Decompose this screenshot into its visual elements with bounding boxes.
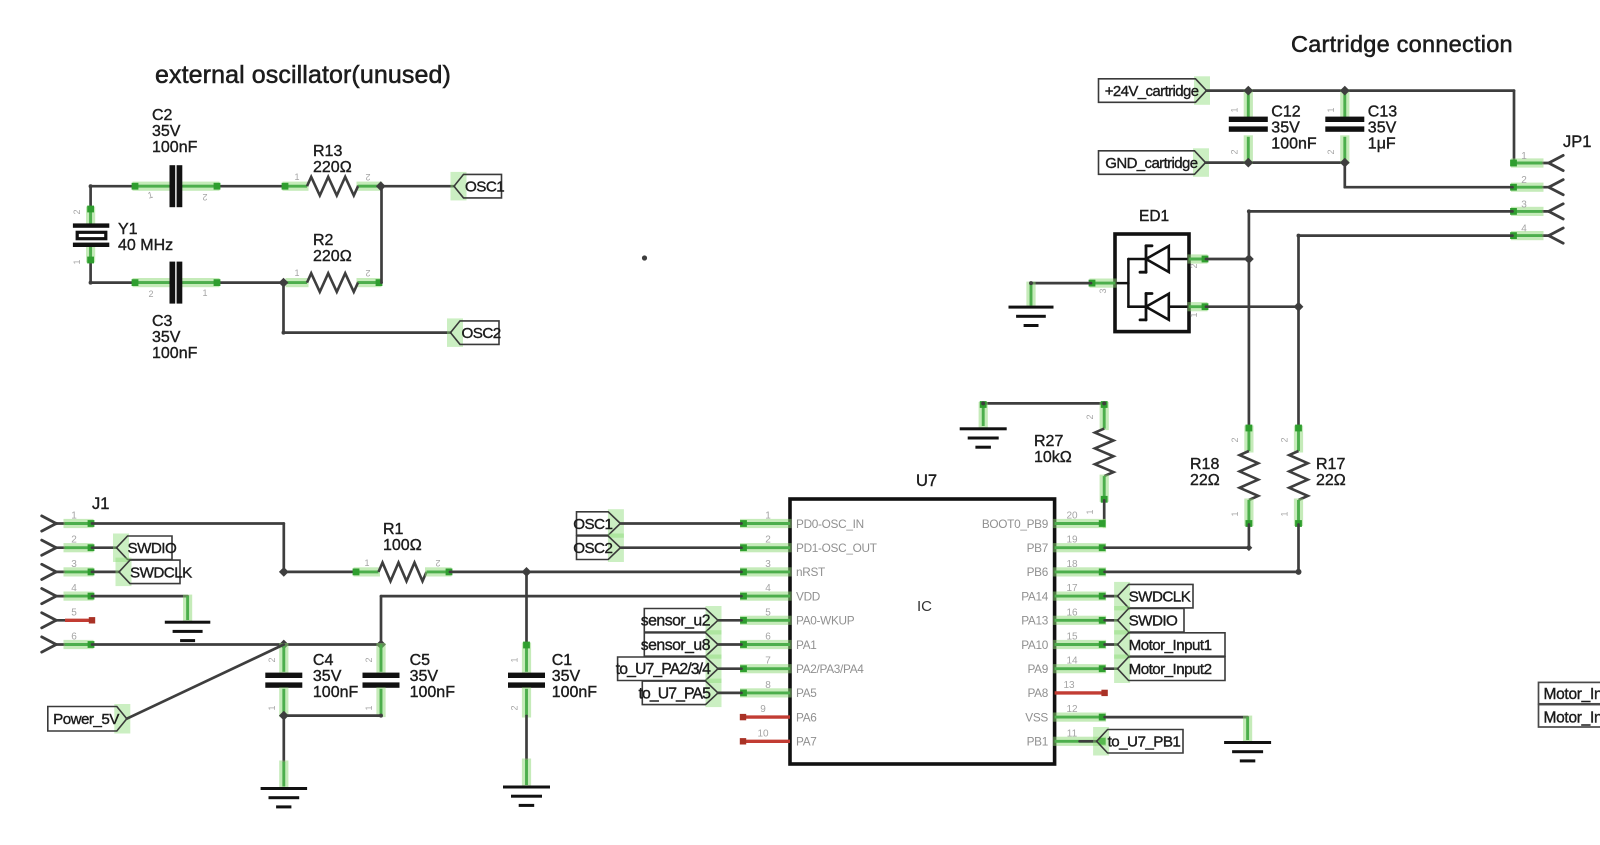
svg-text:sensor_u8: sensor_u8: [641, 637, 711, 654]
svg-text:100nF: 100nF: [552, 684, 598, 701]
svg-text:20: 20: [1066, 511, 1078, 522]
svg-text:to_U7_PB1: to_U7_PB1: [1108, 734, 1181, 751]
svg-text:2: 2: [71, 535, 77, 546]
svg-text:100Ω: 100Ω: [383, 537, 422, 554]
svg-text:C13: C13: [1368, 104, 1397, 121]
svg-text:1: 1: [1230, 511, 1240, 516]
svg-text:2: 2: [72, 209, 82, 214]
svg-text:SWDCLK: SWDCLK: [1129, 589, 1191, 606]
svg-text:IC: IC: [917, 598, 932, 615]
svg-text:PA13: PA13: [1021, 614, 1049, 628]
svg-text:sensor_u2: sensor_u2: [641, 613, 710, 630]
svg-text:PA14: PA14: [1021, 589, 1049, 603]
svg-text:6: 6: [71, 632, 77, 643]
svg-text:Motor_Input2: Motor_Input2: [1129, 661, 1212, 678]
svg-text:17: 17: [1066, 583, 1078, 594]
svg-text:1μF: 1μF: [1368, 136, 1396, 153]
svg-text:35V: 35V: [410, 668, 439, 685]
svg-text:35V: 35V: [313, 668, 342, 685]
svg-text:2: 2: [1280, 437, 1290, 442]
svg-text:2: 2: [365, 268, 370, 278]
svg-text:1: 1: [267, 705, 277, 710]
svg-text:2: 2: [1230, 437, 1240, 442]
svg-text:220Ω: 220Ω: [313, 159, 352, 176]
svg-text:Motor_Input1: Motor_Input1: [1129, 637, 1212, 654]
svg-text:1: 1: [71, 511, 77, 522]
svg-text:R13: R13: [313, 143, 342, 160]
svg-text:R17: R17: [1316, 456, 1345, 473]
svg-text:15: 15: [1066, 632, 1078, 643]
svg-text:PB6: PB6: [1027, 565, 1049, 579]
svg-text:R18: R18: [1190, 456, 1219, 473]
svg-text:220Ω: 220Ω: [313, 248, 352, 265]
svg-text:2: 2: [765, 535, 771, 546]
svg-text:8: 8: [765, 680, 771, 691]
svg-text:100nF: 100nF: [1271, 136, 1317, 153]
svg-text:3: 3: [765, 559, 771, 570]
svg-text:1: 1: [1085, 509, 1095, 514]
svg-text:2: 2: [1085, 414, 1095, 419]
svg-text:7: 7: [765, 656, 771, 667]
svg-text:Power_5V: Power_5V: [53, 711, 120, 728]
svg-text:C4: C4: [313, 652, 334, 669]
svg-text:C3: C3: [152, 313, 173, 330]
svg-text:1: 1: [1280, 511, 1290, 516]
svg-text:VSS: VSS: [1025, 710, 1048, 724]
svg-text:22Ω: 22Ω: [1190, 472, 1220, 489]
svg-text:J1: J1: [92, 495, 109, 513]
svg-text:U7: U7: [916, 472, 937, 490]
svg-text:3: 3: [1098, 288, 1108, 293]
svg-text:5: 5: [765, 607, 771, 618]
svg-text:2: 2: [148, 289, 153, 299]
svg-text:100nF: 100nF: [410, 684, 456, 701]
svg-text:4: 4: [765, 583, 771, 594]
svg-text:OSC1: OSC1: [465, 179, 504, 196]
svg-text:35V: 35V: [152, 123, 181, 140]
svg-text:PD0-OSC_IN: PD0-OSC_IN: [796, 517, 864, 531]
svg-text:C5: C5: [410, 652, 431, 669]
svg-text:+24V_cartridge: +24V_cartridge: [1105, 83, 1199, 100]
svg-text:VDD: VDD: [796, 589, 820, 603]
svg-text:1: 1: [1521, 151, 1527, 162]
svg-text:13: 13: [1063, 680, 1075, 691]
svg-text:PA1: PA1: [796, 638, 817, 652]
svg-text:18: 18: [1066, 559, 1078, 570]
svg-text:35V: 35V: [152, 329, 181, 346]
svg-text:100nF: 100nF: [313, 684, 359, 701]
svg-text:4: 4: [71, 583, 77, 594]
svg-text:22Ω: 22Ω: [1316, 472, 1346, 489]
svg-text:3: 3: [1521, 199, 1527, 210]
svg-text:to_U7_PA5: to_U7_PA5: [638, 685, 711, 702]
svg-text:1: 1: [364, 705, 374, 710]
svg-text:1: 1: [765, 511, 771, 522]
svg-text:PD1-OSC_OUT: PD1-OSC_OUT: [796, 541, 877, 555]
svg-text:SWDIO: SWDIO: [128, 540, 177, 557]
svg-text:5: 5: [71, 607, 77, 618]
svg-text:6: 6: [765, 632, 771, 643]
svg-text:JP1: JP1: [1563, 133, 1591, 151]
svg-text:2: 2: [267, 657, 277, 662]
svg-text:ED1: ED1: [1139, 208, 1169, 225]
svg-text:1: 1: [1326, 107, 1336, 112]
svg-text:12: 12: [1066, 704, 1078, 715]
svg-text:PA7: PA7: [796, 735, 817, 749]
svg-text:2: 2: [1326, 149, 1336, 154]
svg-text:2: 2: [1229, 149, 1239, 154]
svg-text:1: 1: [72, 259, 82, 264]
svg-text:3: 3: [71, 559, 77, 570]
svg-text:PB1: PB1: [1027, 735, 1048, 749]
svg-text:1: 1: [510, 657, 520, 662]
svg-text:2: 2: [364, 657, 374, 662]
svg-text:14: 14: [1066, 656, 1078, 667]
svg-text:OSC1: OSC1: [573, 516, 612, 533]
svg-text:11: 11: [1067, 728, 1078, 739]
svg-text:PB7: PB7: [1027, 541, 1048, 555]
svg-text:2: 2: [510, 705, 520, 710]
svg-text:nRST: nRST: [796, 565, 825, 579]
svg-text:2: 2: [202, 192, 207, 202]
svg-text:19: 19: [1066, 535, 1078, 546]
svg-text:PA8: PA8: [1027, 686, 1048, 700]
svg-text:35V: 35V: [1271, 120, 1300, 137]
svg-text:1: 1: [1189, 312, 1199, 317]
svg-text:SWDIO: SWDIO: [1129, 613, 1178, 630]
svg-text:1: 1: [294, 268, 299, 278]
svg-text:OSC2: OSC2: [462, 325, 501, 342]
svg-text:Cartridge connection: Cartridge connection: [1291, 31, 1513, 57]
svg-text:4: 4: [1521, 224, 1527, 235]
svg-text:R27: R27: [1034, 433, 1063, 450]
svg-text:BOOT0_PB9: BOOT0_PB9: [982, 517, 1048, 531]
svg-text:Y1: Y1: [118, 221, 138, 238]
svg-text:to_U7_PA2/3/4: to_U7_PA2/3/4: [616, 661, 711, 678]
svg-text:PA9: PA9: [1027, 662, 1048, 676]
svg-text:1: 1: [1229, 107, 1239, 112]
svg-text:PA5: PA5: [796, 686, 817, 700]
svg-text:external oscillator(unused): external oscillator(unused): [155, 61, 451, 89]
svg-text:Motor_Input2: Motor_Input2: [1544, 710, 1600, 727]
svg-text:R1: R1: [383, 521, 404, 538]
svg-text:10: 10: [757, 728, 769, 739]
svg-text:R2: R2: [313, 232, 334, 249]
svg-text:PA0-WKUP: PA0-WKUP: [796, 614, 855, 628]
svg-text:PA6: PA6: [796, 710, 817, 724]
svg-text:OSC2: OSC2: [573, 540, 612, 557]
svg-text:GND_cartridge: GND_cartridge: [1105, 155, 1197, 172]
svg-text:Motor_Input1: Motor_Input1: [1544, 686, 1600, 703]
svg-text:C12: C12: [1271, 104, 1300, 121]
svg-text:1: 1: [364, 558, 369, 568]
svg-text:PA10: PA10: [1021, 638, 1049, 652]
svg-text:35V: 35V: [552, 668, 581, 685]
svg-text:100nF: 100nF: [152, 139, 198, 156]
svg-text:16: 16: [1066, 607, 1078, 618]
svg-text:10kΩ: 10kΩ: [1034, 449, 1072, 466]
svg-text:C1: C1: [552, 652, 573, 669]
svg-text:1: 1: [202, 288, 207, 298]
svg-text:SWDCLK: SWDCLK: [130, 564, 192, 581]
svg-text:C2: C2: [152, 107, 173, 124]
svg-text:2: 2: [435, 558, 440, 568]
svg-text:2: 2: [1189, 263, 1199, 268]
svg-text:9: 9: [760, 704, 766, 715]
svg-text:40 MHz: 40 MHz: [118, 237, 173, 254]
svg-text:PA2/PA3/PA4: PA2/PA3/PA4: [796, 662, 864, 676]
svg-text:2: 2: [1521, 175, 1527, 186]
svg-text:1: 1: [294, 172, 299, 182]
svg-text:100nF: 100nF: [152, 345, 198, 362]
svg-text:35V: 35V: [1368, 120, 1397, 137]
svg-text:2: 2: [365, 172, 370, 182]
